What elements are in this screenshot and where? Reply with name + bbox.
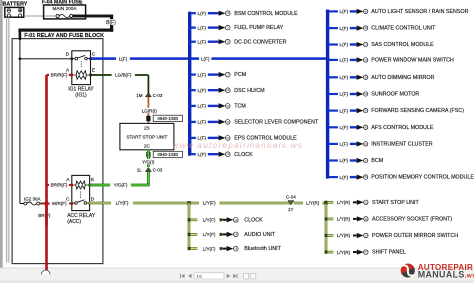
autorepairmanuals logo (398, 261, 474, 279)
svg-text:85: 85 (234, 232, 237, 236)
svg-text:L(F): L(F) (340, 92, 349, 97)
relay IG1 coil (73, 61, 91, 79)
wire BR/R red over label (45, 206, 48, 225)
label L(F) SELECTOR LEVER COMPONENT (196, 119, 208, 125)
wire L/Y(R) branch SHIFT PANEL (325, 251, 334, 254)
label L(F) INSTRUMENT CLUSTER (338, 141, 350, 147)
svg-text:L(F): L(F) (340, 26, 349, 31)
junction feed IG1 (19, 57, 22, 60)
wire L/Y(R) to right tree (294, 202, 327, 205)
wire L(F) branch INSTRUMENT CLUSTER (326, 142, 338, 145)
relay IG1 name (68, 87, 94, 99)
label L(F) POWER WINDOW MAIN SWITCH (338, 57, 350, 63)
svg-text:L/Y(F): L/Y(F) (203, 246, 216, 251)
wire battery positive down (8, 17, 9, 262)
svg-text:L(F): L(F) (198, 39, 207, 44)
label L(F) POSITION MEMORY CONTROL MODULE (338, 174, 350, 180)
svg-text:94: 94 (364, 217, 367, 221)
svg-text:1/1: 1/1 (197, 274, 203, 279)
wire L/Y(F) branch AUDIO UNIT (188, 233, 198, 236)
pin square IG1 A (71, 74, 73, 77)
svg-text:60: 60 (364, 109, 367, 113)
arrow and pin FUEL PUMP RELAY (208, 25, 230, 30)
unit START STOP UNIT box (120, 123, 174, 149)
svg-text:L(F): L(F) (198, 88, 207, 93)
svg-text:L(F): L(F) (340, 158, 349, 163)
svg-text:58: 58 (364, 92, 367, 96)
svg-text:AUTO LIGHT SENSOR / RAIN SENSO: AUTO LIGHT SENSOR / RAIN SENSOR (371, 9, 468, 15)
svg-text:L(F): L(F) (198, 152, 207, 157)
arrow and pin AFS CONTROL MODULE (350, 125, 368, 130)
svg-text:15: 15 (364, 43, 367, 47)
relay ACC name (67, 213, 96, 225)
svg-text:45: 45 (364, 125, 367, 129)
arrow and pin DC-DC CONVERTER (208, 39, 230, 44)
svg-text:1M: 1M (136, 93, 143, 98)
svg-text:Bluetooth UNIT: Bluetooth UNIT (244, 246, 281, 252)
svg-text:2S: 2S (144, 125, 150, 130)
wire L(F) branch SUNROOF MOTOR (326, 92, 338, 95)
label L/Y(R) START STOP UNIT (334, 199, 353, 205)
svg-text:DC-DC CONVERTER: DC-DC CONVERTER (234, 39, 286, 45)
relay ACC pin labels (66, 177, 95, 202)
wire L(F) branch AUTO LIGHT SENSOR / RAIN SENSOR (326, 10, 338, 13)
connector label 0940-103B lower (153, 151, 182, 157)
connector mark lower (146, 152, 150, 157)
wire BR/R(F) vertical red (45, 75, 48, 270)
wire L(F) branch TCM (188, 104, 196, 107)
bus L(F) right vertical (326, 10, 329, 178)
junction at block top (19, 38, 22, 41)
bus L(F) middle vertical (188, 12, 191, 154)
arrow and pin SELECTOR LEVER COMPONENT (208, 119, 230, 124)
connector 1M C-03 (136, 93, 163, 98)
pin square ACC E (88, 184, 90, 187)
arrow and pin TCM (208, 103, 230, 108)
svg-text:www.autorepairmanuals.ws: www.autorepairmanuals.ws (173, 141, 304, 150)
svg-text:0940-103B: 0940-103B (158, 116, 179, 121)
svg-text:L/Y(F): L/Y(F) (203, 232, 216, 237)
wire L(F) branch EPS CONTROL MODULE (188, 136, 196, 139)
svg-text:DSC HU/CM: DSC HU/CM (234, 88, 265, 94)
svg-text:L(F): L(F) (198, 72, 207, 77)
arrow and pin START STOP UNIT (353, 200, 368, 205)
label L(F) DC-DC CONVERTER (196, 39, 208, 45)
wire BR/R(F) to IG1 pin A (47, 74, 71, 76)
svg-text:13: 13 (226, 152, 229, 156)
svg-text:AUTO DIMMING MIRROR: AUTO DIMMING MIRROR (371, 75, 434, 81)
arrow and pin SAS CONTROL MODULE (350, 42, 368, 47)
arrow and pin PCM (208, 72, 230, 77)
label L(F) PCM (196, 72, 208, 78)
wire L(F) branch BSM CONTROL MODULE (188, 12, 196, 15)
wire L(F) branch DSC HU/CM (188, 89, 196, 92)
svg-text:11: 11 (226, 40, 229, 44)
svg-text:TCM: TCM (234, 104, 246, 110)
pin square ACC C (71, 202, 73, 205)
wire LG/B(F) dark green (91, 74, 150, 95)
battery B+ B- box (5, 7, 24, 17)
arrow and pin BSM CONTROL MODULE (208, 11, 230, 16)
svg-text:20: 20 (364, 159, 367, 163)
wire L(F) branch BCM (326, 159, 338, 162)
label L(F) SUNROOF MOTOR (338, 91, 350, 97)
label L/Y(R) SHIFT PANEL (334, 249, 353, 255)
relay ACC coil (73, 181, 90, 199)
wire L/Y(F) branch Bluetooth UNIT (188, 247, 198, 250)
arrow and pin DSC HU/CM (208, 88, 230, 93)
label L(F) FORWARD SENSING CAMERA (FSC) (338, 108, 350, 114)
svg-text:14: 14 (364, 234, 367, 238)
arrow and pin POWER WINDOW MAIN SWITCH (350, 57, 368, 62)
arrow and pin POSITION MEMORY CONTROL MODULE (350, 175, 368, 180)
svg-text:55: 55 (226, 120, 229, 124)
svg-text:(ACC): (ACC) (67, 219, 81, 225)
svg-text:L(F): L(F) (340, 108, 349, 113)
svg-text:BR/R(F): BR/R(F) (51, 183, 68, 188)
svg-text:POSITION MEMORY CONTROL MODULE: POSITION MEMORY CONTROL MODULE (371, 175, 474, 181)
label LG/B(F) (112, 72, 135, 78)
svg-text:L(F): L(F) (198, 11, 207, 16)
svg-text:L/Y(F): L/Y(F) (203, 201, 216, 206)
svg-text:IG2 30A: IG2 30A (24, 196, 41, 201)
wire feed to IG1 relay pin D (20, 58, 72, 59)
label BR/R(F) upper (49, 72, 69, 78)
svg-text:E: E (91, 177, 94, 183)
F-01 relay and fuse block box (12, 39, 103, 264)
svg-text:1L: 1L (137, 168, 143, 173)
svg-text:L(F): L(F) (198, 120, 207, 125)
relay IG1 switch contact (72, 55, 90, 59)
arrow and pin FORWARD SENSING CAMERA (FSC) (350, 108, 368, 113)
wire L(F) branch CLIMATE CONTROL UNIT (326, 27, 338, 30)
wire L(F) branch FORWARD SENSING CAMERA (FSC) (326, 109, 338, 112)
arrow and pin SHIFT PANEL (353, 250, 368, 255)
label L(F) CLIMATE CONTROL UNIT (338, 25, 350, 31)
relay ACC box (72, 175, 90, 210)
junction L/Y left tree (187, 201, 191, 205)
svg-text:L(F): L(F) (340, 75, 349, 80)
svg-text:40: 40 (364, 9, 367, 13)
toolbar strip bottom (0, 268, 474, 283)
wire battery negative down (6, 17, 7, 262)
svg-text:BATTERY: BATTERY (3, 1, 28, 7)
wire BR/R(F) to ACC pin A (47, 184, 71, 186)
label L(F) DSC HU/CM (196, 87, 208, 93)
svg-text:FORWARD SENSING CAMERA (FSC): FORWARD SENSING CAMERA (FSC) (371, 108, 464, 114)
svg-text:C-04: C-04 (286, 195, 296, 200)
svg-text:57: 57 (364, 250, 367, 254)
svg-text:C-03: C-03 (153, 168, 163, 173)
wire L(F) main blue horizontal (91, 57, 330, 60)
svg-text:E: E (92, 68, 95, 74)
wire L(F) branch CLOCK (188, 153, 196, 156)
svg-text:Y/G(F): Y/G(F) (114, 183, 128, 188)
svg-text:46: 46 (364, 26, 367, 30)
label L(F) FUEL PUMP RELAY (196, 25, 208, 31)
connector C-04 (286, 195, 296, 212)
svg-text:PCM: PCM (234, 72, 246, 78)
arrow and pin AUTO DIMMING MIRROR (350, 75, 368, 80)
svg-text:L(F): L(F) (340, 125, 349, 130)
svg-text:ACCESSORY SOCKET (FRONT): ACCESSORY SOCKET (FRONT) (372, 217, 452, 223)
wire L(F) branch SAS CONTROL MODULE (326, 43, 338, 46)
svg-text:CLOCK: CLOCK (234, 152, 253, 158)
wire Y/G(F) from ACC pin E (89, 184, 150, 187)
arrow and pin CLOCK (222, 217, 238, 222)
label L(F) AFS CONTROL MODULE (338, 124, 350, 130)
connector label 0940-103B upper (153, 115, 182, 121)
svg-text:(IG1): (IG1) (75, 93, 87, 99)
pin square ACC A (71, 184, 73, 187)
svg-text:31: 31 (364, 142, 367, 146)
arrow and pin POWER OUTER MIRROR SWITCH (353, 233, 368, 238)
wire L(F) branch AFS CONTROL MODULE (326, 126, 338, 129)
wire LG/R(I) orange (148, 97, 150, 123)
label L(F) TCM (196, 103, 208, 109)
label LG/R(I) (138, 108, 160, 114)
svg-text:1Y: 1Y (288, 207, 294, 212)
fuse MAIN 200A box (44, 5, 86, 19)
svg-text:52: 52 (226, 88, 229, 92)
label Y/G(F) (110, 182, 131, 188)
wire Y/G vertical to ACC (147, 172, 150, 185)
label L(F) EPS CONTROL MODULE (196, 135, 208, 141)
arrow and pin ACCESSORY SOCKET (FRONT) (353, 216, 368, 221)
label L/Y(F) AUDIO UNIT (199, 232, 219, 238)
wire L/Y(F) branch CLOCK (188, 218, 198, 221)
svg-text:L/Y(R): L/Y(R) (337, 200, 351, 205)
wire L(F) branch POWER WINDOW MAIN SWITCH (326, 58, 338, 61)
arrow and pin EPS CONTROL MODULE (208, 135, 230, 140)
svg-text:L/Y(R): L/Y(R) (337, 233, 351, 238)
svg-text:START STOP UNIT: START STOP UNIT (372, 200, 419, 206)
svg-text:POWER WINDOW MAIN SWITCH: POWER WINDOW MAIN SWITCH (371, 58, 454, 64)
svg-text:93: 93 (364, 200, 367, 204)
svg-text:C: C (92, 52, 96, 58)
scrollbar strip left (0, 0, 3, 274)
svg-text:16: 16 (234, 247, 237, 251)
label B(F) (105, 19, 116, 26)
label L/Y(F) second (199, 200, 219, 206)
svg-text:L(F): L(F) (340, 58, 349, 63)
relay IG1 box (72, 51, 91, 85)
wire Y/G(I) green (147, 150, 150, 167)
wire B(F) internal vertical (19, 39, 20, 204)
svg-text:L(F): L(F) (198, 104, 207, 109)
wire L/Y right tree vertical (325, 203, 328, 252)
svg-text:49: 49 (226, 11, 229, 15)
connector mark upper (146, 116, 150, 121)
svg-text:Y/G(I): Y/G(I) (142, 159, 155, 164)
arrow and pin INSTRUMENT CLUSTER (350, 141, 368, 146)
label BR/R(F) lower (49, 182, 69, 188)
label L/Y(R) POWER OUTER MIRROR SWITCH (334, 233, 353, 239)
label L(F) BSM CONTROL MODULE (196, 10, 208, 16)
pin square IG1 E (89, 74, 91, 77)
relay IG1 pin labels (66, 52, 96, 74)
svg-text:LG/B(F): LG/B(F) (115, 73, 132, 78)
arrow and pin Bluetooth UNIT (222, 246, 238, 251)
svg-text:FUEL PUMP RELAY: FUEL PUMP RELAY (234, 25, 283, 31)
wire W/R(F) to ACC pin C (40, 203, 71, 205)
wire L/Y left tree vertical (188, 203, 191, 249)
svg-text:L/Y(R): L/Y(R) (337, 250, 351, 255)
junction L/Y right tree (324, 201, 328, 205)
label L/Y(F) first (111, 200, 133, 206)
svg-text:L(F): L(F) (340, 9, 349, 14)
arrow and pin CLOCK (208, 152, 230, 157)
label L(F) after middle bus (199, 56, 211, 62)
label L(F) AUTO LIGHT SENSOR / RAIN SENSOR (338, 8, 350, 14)
arrow and pin AUDIO UNIT (222, 232, 238, 237)
pin square IG1 D (71, 58, 73, 61)
svg-text:MAIN 200A: MAIN 200A (53, 6, 78, 11)
wire L(F) branch PCM (188, 73, 196, 76)
pin square ACC D (88, 202, 90, 205)
svg-text:SHIFT PANEL: SHIFT PANEL (372, 250, 406, 256)
pin square IG1 C (89, 57, 91, 60)
svg-text:START STOP UNIT: START STOP UNIT (126, 135, 167, 140)
fuse element MAIN 200A (45, 14, 73, 17)
arrow and pin BCM (350, 158, 368, 163)
svg-text:BR/R(F): BR/R(F) (51, 73, 68, 78)
svg-text:B(F): B(F) (106, 20, 116, 26)
svg-text:2C: 2C (144, 144, 151, 149)
svg-text:54: 54 (226, 104, 229, 108)
svg-text:14: 14 (234, 218, 237, 222)
svg-text:C-03: C-03 (153, 93, 163, 98)
label Y/G(I) (139, 159, 158, 165)
wire L(F) branch FUEL PUMP RELAY (188, 26, 196, 29)
svg-text:L(F): L(F) (198, 25, 207, 30)
svg-text:L(F): L(F) (119, 56, 128, 61)
svg-text:D: D (91, 196, 95, 202)
svg-text:L(F): L(F) (340, 142, 349, 147)
svg-text:72: 72 (364, 58, 367, 62)
wire L(F) branch POSITION MEMORY CONTROL MODULE (326, 176, 338, 179)
label L(F) CLOCK (196, 151, 208, 157)
wire L(F) branch AUTO DIMMING MIRROR (326, 76, 338, 79)
svg-text:INSTRUMENT CLUSTER: INSTRUMENT CLUSTER (371, 142, 433, 148)
wire B(F) thick from main fuse (18, 15, 113, 39)
svg-text:SAS CONTROL MODULE: SAS CONTROL MODULE (371, 42, 434, 48)
svg-text:49: 49 (364, 75, 367, 79)
svg-text:L(F): L(F) (198, 136, 207, 141)
svg-text:CLIMATE CONTROL UNIT: CLIMATE CONTROL UNIT (371, 26, 436, 32)
wire L/Y(R) branch POWER OUTER MIRROR SWITCH (325, 234, 334, 237)
fuse IG2 element (20, 202, 40, 205)
svg-text:56: 56 (226, 136, 229, 140)
svg-text:LG/R(I): LG/R(I) (142, 108, 158, 113)
label L/Y(R) before junction (303, 200, 322, 206)
arrow and pin SUNROOF MOTOR (350, 91, 368, 96)
label L(F) BCM (338, 158, 350, 164)
svg-text:L/Y(F): L/Y(F) (203, 217, 216, 222)
connector mark AUDIO UNIT (220, 233, 223, 236)
svg-text:SUNROOF MOTOR: SUNROOF MOTOR (371, 92, 419, 98)
svg-text:AUDIO UNIT: AUDIO UNIT (244, 232, 276, 238)
svg-text:W/R(F): W/R(F) (52, 201, 67, 206)
connector 1L C-03 (137, 167, 163, 172)
wire L(F) branch SELECTOR LEVER COMPONENT (188, 120, 196, 123)
connector half circle bottom (41, 270, 50, 274)
svg-text:BCM: BCM (371, 158, 383, 164)
label L/Y(R) ACCESSORY SOCKET (FRONT) (334, 216, 353, 222)
svg-text:63: 63 (364, 175, 367, 179)
svg-text:D: D (66, 52, 70, 58)
label L(F) SAS CONTROL MODULE (338, 42, 350, 48)
label L(F) at IG1 (116, 56, 130, 62)
wire battery to main fuse (24, 16, 44, 17)
junction red crossing (45, 202, 49, 206)
label L/Y(F) CLOCK (199, 217, 219, 223)
toolbar page navigation controls (180, 273, 256, 279)
label W/R(F) (50, 201, 69, 207)
wire L/Y(F) from ACC pin D (89, 202, 290, 205)
relay ACC switch contact (72, 200, 89, 205)
connector mark Bluetooth UNIT (220, 247, 223, 250)
svg-text:L/Y(R): L/Y(R) (306, 201, 320, 206)
svg-text:SELECTOR LEVER COMPONENT: SELECTOR LEVER COMPONENT (234, 120, 319, 126)
wire L/Y(R) branch START STOP UNIT (325, 201, 334, 204)
svg-text:L/Y(R): L/Y(R) (337, 217, 351, 222)
svg-text:POWER OUTER MIRROR SWITCH: POWER OUTER MIRROR SWITCH (372, 233, 458, 239)
svg-text:L(F): L(F) (340, 175, 349, 180)
wire L(F) branch DC-DC CONVERTER (188, 40, 196, 43)
wire L/Y(R) branch ACCESSORY SOCKET (FRONT) (325, 217, 334, 220)
arrow and pin AUTO LIGHT SENSOR / RAIN SENSOR (350, 9, 368, 14)
svg-text:AFS CONTROL MODULE: AFS CONTROL MODULE (371, 125, 434, 131)
svg-text:BR(F): BR(F) (38, 213, 51, 218)
svg-text:L/Y(F): L/Y(F) (116, 201, 129, 206)
svg-text:BSM CONTROL MODULE: BSM CONTROL MODULE (234, 11, 298, 17)
svg-text:L(F): L(F) (340, 42, 349, 47)
svg-text:17: 17 (226, 73, 229, 77)
svg-text:L(F): L(F) (201, 56, 210, 61)
label L(F) AUTO DIMMING MIRROR (338, 74, 350, 80)
svg-text:CLOCK: CLOCK (244, 217, 263, 223)
connector mark CLOCK (220, 218, 223, 221)
svg-text:0940-103B: 0940-103B (158, 152, 179, 157)
arrow and pin CLIMATE CONTROL UNIT (350, 26, 368, 31)
label L/Y(F) Bluetooth UNIT (199, 246, 219, 252)
